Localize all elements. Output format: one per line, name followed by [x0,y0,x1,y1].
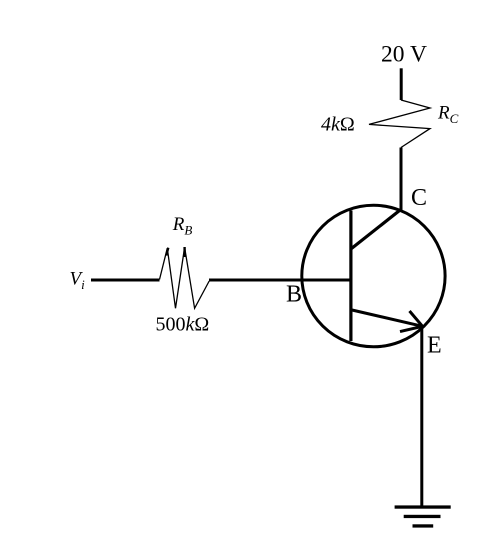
wire Vi to RB [91,279,160,282]
wire VCC to RC top [400,68,403,100]
svg-text:RC: RC [437,103,459,127]
wire RB to base [209,279,351,282]
svg-text:500kΩ: 500kΩ [156,314,210,336]
emitter wire to ground [420,326,423,507]
resistor RC zigzag [369,100,430,148]
emitter arrowhead [400,311,423,332]
svg-text:E: E [427,333,442,359]
svg-text:C: C [411,185,427,211]
collector lead diagonal [352,210,401,249]
svg-text:B: B [286,282,302,308]
svg-text:20 V: 20 V [381,41,427,67]
wire RC bottom to collector [400,148,403,212]
transistor Q1 base bar [349,211,352,342]
transistor Q1 circle [302,205,445,347]
svg-text:4kΩ: 4kΩ [321,114,355,136]
ground symbol [395,505,451,527]
svg-text:Vi: Vi [70,269,86,293]
svg-text:RB: RB [172,214,193,238]
resistor RB zigzag [160,247,210,308]
emitter lead diagonal [352,310,423,326]
